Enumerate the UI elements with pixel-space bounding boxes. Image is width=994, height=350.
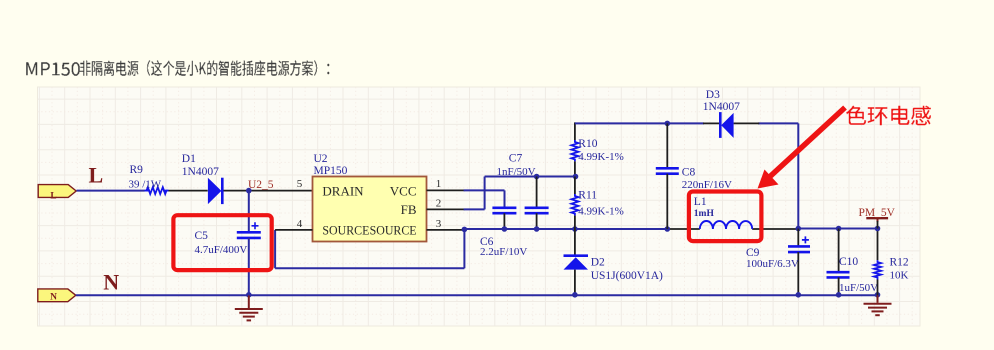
wire R11 top: [574, 177, 576, 195]
svg-text:SOURCE: SOURCE: [370, 222, 417, 237]
wire source drop: [463, 229, 465, 268]
svg-text:4.99K-1%: 4.99K-1%: [578, 205, 624, 217]
power port PM_5V: [866, 217, 888, 219]
annotation arrow: [770, 108, 845, 177]
wire C7 to rail: [536, 213, 538, 229]
svg-text:1nF/50V: 1nF/50V: [497, 166, 536, 178]
resistor R12: [874, 260, 881, 279]
wire L rail: [77, 190, 145, 192]
page title text: [26, 60, 329, 76]
svg-text:MP150: MP150: [314, 165, 348, 177]
wire top rail: [575, 122, 704, 124]
svg-text:U2_5: U2_5: [248, 179, 274, 191]
svg-text:C5: C5: [195, 230, 209, 242]
capacitor C7 lead top: [536, 177, 538, 208]
svg-text:R10: R10: [578, 138, 597, 150]
svg-text:FB: FB: [401, 202, 417, 217]
svg-text:L: L: [89, 163, 104, 188]
wire N rail: [76, 294, 878, 296]
svg-text:C7: C7: [509, 153, 523, 165]
svg-text:D3: D3: [706, 89, 720, 101]
annotation text 色环电感: [846, 106, 931, 126]
capacitor C9 bottom lead: [797, 252, 799, 295]
wire FB riser: [484, 177, 486, 210]
wire VCC down to C6: [504, 190, 506, 207]
ground GND2: [864, 295, 892, 315]
svg-text:C10: C10: [839, 256, 858, 268]
svg-text:D2: D2: [591, 256, 605, 268]
junction pin3: [462, 227, 468, 233]
svg-text:1N4007: 1N4007: [703, 101, 740, 113]
svg-text:D1: D1: [182, 153, 196, 165]
junction C6 bottom: [502, 226, 508, 232]
wire D1 to U2 pin5: [224, 190, 313, 192]
wire top rail left elbow: [574, 122, 576, 140]
wire pin4 SOURCE: [275, 229, 312, 231]
capacitor C10 bottom lead: [838, 277, 840, 295]
ground GND1: [235, 296, 263, 321]
svg-text:R9: R9: [130, 164, 144, 176]
wire source return: [275, 267, 464, 269]
capacitor C10 top lead: [838, 229, 840, 273]
wire junction to C5: [248, 191, 250, 233]
port N terminal: [38, 289, 76, 302]
svg-text:1uF/50V: 1uF/50V: [839, 282, 878, 294]
wire D3 cathode lead: [734, 122, 760, 124]
junction C5-N: [246, 292, 252, 298]
capacitor C8 bottom lead: [666, 174, 668, 229]
svg-text:4: 4: [297, 218, 303, 230]
svg-text:SOURCE: SOURCE: [322, 222, 369, 237]
capacitor C9 lead: [797, 229, 799, 247]
resistor R10: [571, 140, 578, 161]
junction C9-N: [796, 292, 802, 298]
svg-text:100uF/6.3V: 100uF/6.3V: [746, 258, 799, 270]
svg-text:4.99K-1%: 4.99K-1%: [578, 151, 624, 163]
capacitor C9: [788, 245, 810, 248]
svg-text:DRAIN: DRAIN: [322, 183, 364, 198]
wire D2 bottom lead: [574, 270, 576, 296]
svg-text:4.7uF/400V: 4.7uF/400V: [195, 244, 248, 256]
svg-text:PM_5V: PM_5V: [859, 207, 896, 219]
wire R12 top lead: [877, 229, 879, 261]
resistor R11: [571, 194, 578, 216]
capacitor C8: [656, 167, 679, 170]
wire R12 bottom lead: [877, 280, 879, 296]
wire R9 to D1: [169, 190, 208, 192]
capacitor C7: [525, 207, 549, 210]
wire D3 anode lead: [703, 122, 719, 124]
capacitor C10: [827, 271, 850, 274]
svg-text:1N4007: 1N4007: [182, 166, 219, 178]
wire pin2 FB: [427, 208, 465, 210]
wire pin3 SOURCE: [427, 229, 465, 231]
capacitor C5: [237, 231, 261, 234]
capacitor C8 top lead: [666, 123, 668, 168]
svg-text:1: 1: [436, 178, 442, 190]
highlight box L1: [689, 192, 762, 242]
svg-text:R11: R11: [578, 190, 597, 202]
wire C6 to rail: [503, 213, 505, 229]
diode D2: [564, 254, 589, 257]
IC U2 body: [313, 177, 427, 242]
junction C8 bottom: [665, 226, 671, 232]
junction C8 top: [665, 121, 671, 127]
svg-text:N: N: [103, 269, 119, 294]
svg-text:R12: R12: [890, 257, 909, 269]
junction node U2_5: [246, 188, 252, 194]
wire D2 top lead: [574, 229, 576, 256]
junction R12-N rail: [875, 292, 881, 298]
svg-text:US1J(600V1A): US1J(600V1A): [591, 270, 663, 282]
highlight box C5: [173, 215, 271, 270]
wire right rail riser: [797, 123, 799, 228]
svg-text:2.2uF/10V: 2.2uF/10V: [480, 246, 527, 258]
inductor L1: [700, 221, 752, 229]
schematic canvas: [38, 87, 921, 326]
port L terminal: [38, 185, 76, 198]
svg-text:L1: L1: [694, 196, 707, 208]
svg-text:VCC: VCC: [390, 183, 417, 198]
junction R10-R11: [573, 174, 579, 180]
wire R10 bottom: [574, 161, 576, 176]
junction C7 top: [534, 174, 540, 180]
diode D1: [208, 178, 222, 204]
svg-text:N: N: [50, 292, 57, 302]
capacitor C6: [492, 207, 516, 210]
svg-text:39 /1W: 39 /1W: [129, 178, 162, 190]
svg-text:3: 3: [436, 218, 442, 230]
svg-text:10K: 10K: [890, 269, 909, 281]
diode D3: [719, 112, 722, 138]
wire source riser: [274, 230, 276, 268]
svg-text:U2: U2: [314, 153, 328, 165]
svg-text:C8: C8: [682, 167, 696, 179]
svg-text:L: L: [50, 192, 56, 202]
junction C7 bottom: [534, 226, 540, 232]
svg-text:220nF/16V: 220nF/16V: [682, 179, 732, 191]
junction PM_5V: [875, 226, 881, 232]
junction R11 bottom: [572, 226, 578, 232]
wire R11 bottom lead: [574, 216, 576, 229]
wire C5 to N rail: [248, 238, 250, 295]
svg-text:1mH: 1mH: [694, 209, 715, 219]
junction L1-C9: [796, 226, 802, 232]
wire middle rail: [464, 228, 667, 230]
junction D2-N rail: [572, 292, 578, 298]
wire pin1 VCC: [427, 189, 465, 191]
junction C10-N: [836, 292, 842, 298]
svg-text:5: 5: [297, 178, 303, 190]
wire C7 top rail: [485, 176, 576, 178]
junction C10 top: [836, 226, 842, 232]
resistor R9: [145, 190, 150, 192]
svg-text:2: 2: [436, 197, 442, 209]
